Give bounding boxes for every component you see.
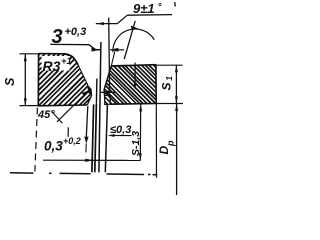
left part section hatching — [30, 42, 100, 107]
svg-text:S-1,3: S-1,3 — [130, 131, 142, 156]
left part left edge — [37, 53, 39, 105]
right part root step and counterbore wall — [104, 90, 110, 104]
dimension 3+0,3 (groove gap) — [50, 26, 124, 52]
label R3+1 (crest radius) — [42, 56, 72, 74]
dimension S-1,3 (vertical) — [130, 104, 142, 160]
tube wall line (left, lower) — [95, 104, 97, 173]
dashed extension of left edge down to centerline — [35, 108, 38, 172]
right part top edge — [111, 65, 156, 66]
bevel edge thin extension above surface — [111, 52, 115, 67]
dimension 0,3+0,2 (root face offset) — [43, 136, 141, 162]
svg-text:+0,2: +0,2 — [63, 136, 81, 146]
left part root beak with 45 deg chamfer — [87, 87, 91, 105]
left part R3 rounded crest — [64, 54, 78, 65]
horizontal axis centerline (dash-dot) — [10, 173, 157, 175]
dimension 9±1° (bevel angle) with leader — [96, 1, 176, 25]
svg-text:S: S — [160, 82, 174, 90]
right part groove bevel edge (9 deg) — [104, 66, 111, 90]
tube wall line (right, lower) — [105, 104, 107, 172]
svg-text:45°: 45° — [37, 109, 55, 121]
label 45° (chamfer) with leader arrow — [37, 90, 89, 136]
svg-text:9±1: 9±1 — [133, 1, 155, 16]
right part section hatching — [100, 58, 160, 108]
left part bottom edge — [38, 104, 87, 107]
angular dimension arc with arrow — [113, 26, 154, 53]
dimension Dp (bore diameter, vertical) — [157, 104, 178, 196]
root ledge leader with arrow — [100, 90, 116, 94]
left part top edge — [39, 53, 64, 55]
svg-text:1: 1 — [164, 76, 174, 81]
extension line from chamfer corner down with arrow — [84, 106, 88, 153]
svg-text:≤0,3: ≤0,3 — [110, 124, 131, 136]
svg-text:R3: R3 — [43, 58, 61, 74]
dimension S (left part thickness) — [3, 54, 38, 106]
svg-text:+0,3: +0,3 — [65, 26, 87, 38]
svg-text:p: p — [166, 140, 176, 147]
right part right edge — [155, 65, 157, 104]
tube wall line (left, upper stub) — [95, 79, 98, 104]
dimension S1 (right part thickness) — [156, 65, 183, 103]
svg-text:0,3: 0,3 — [44, 139, 63, 154]
extension line from gap right edge down to root — [108, 18, 111, 93]
tube wall line (outer left, lower) — [92, 104, 94, 172]
angle reference line (9 deg) — [124, 21, 135, 59]
right edge extension line down past centerline — [155, 104, 157, 178]
vertical reference line with down arrow inside right part — [134, 63, 137, 90]
left part groove bevel edge — [78, 65, 88, 87]
svg-text:+1: +1 — [61, 56, 72, 67]
svg-text:S: S — [3, 77, 17, 86]
gap left wall / tube edge full height — [99, 42, 101, 172]
dimension ≤0,3 (tube-to-bore clearance) — [108, 124, 132, 137]
right part bottom (bore) edge — [110, 103, 156, 106]
